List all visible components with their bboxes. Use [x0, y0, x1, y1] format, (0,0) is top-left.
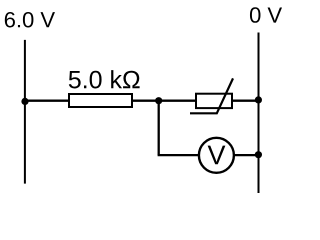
- wire : right supply rail (0 V) vertical: [258, 33, 260, 194]
- wire : left supply rail (6.0 V) vertical: [24, 40, 26, 184]
- voltmeter V1 circle: [199, 138, 234, 173]
- junction : right rail node at thermistor: [255, 96, 262, 103]
- voltmeter V1 letter V: [208, 146, 226, 165]
- wire : voltmeter branch vertical drop: [158, 101, 160, 155]
- wire : left rail to resistor: [24, 100, 69, 102]
- junction : left rail node: [21, 98, 28, 105]
- node label 0 V: [250, 7, 282, 23]
- wire : voltmeter to right rail: [235, 154, 260, 156]
- wire : voltmeter branch horizontal to meter: [158, 154, 199, 156]
- wire : thermistor to right rail: [233, 100, 260, 102]
- junction : node between resistor and thermistor: [155, 97, 162, 104]
- node label 6.0 V: [5, 12, 55, 28]
- junction : right rail node at voltmeter: [255, 151, 262, 158]
- wire : resistor to thermistor: [133, 100, 196, 102]
- label 5.0 kΩ: [69, 70, 140, 88]
- thermistor TH1 body: [196, 94, 232, 108]
- resistor R1 5.0 kΩ: [69, 94, 132, 107]
- thermistor TH1 diagonal stroke: [190, 78, 233, 113]
